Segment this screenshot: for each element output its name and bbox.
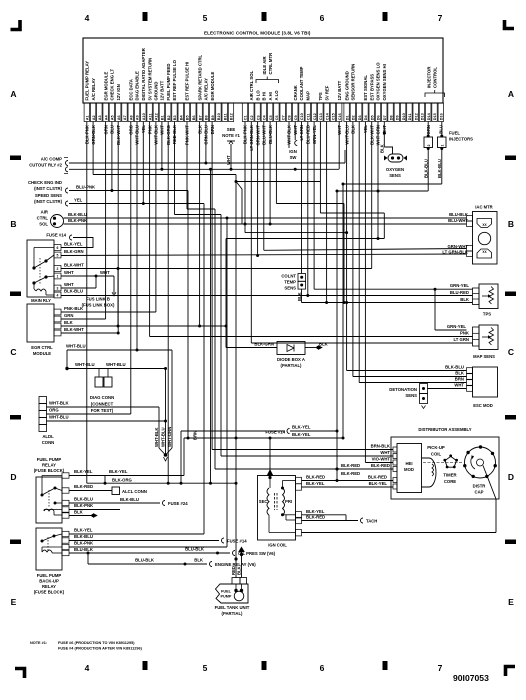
pick-up coil symbol — [422, 458, 437, 487]
svg-text:BLU-PNK: BLU-PNK — [76, 185, 96, 190]
svg-text:A6: A6 — [117, 115, 121, 120]
svg-text:BLK-BLU: BLK-BLU — [120, 497, 139, 502]
ECM pin C15 — [330, 103, 335, 122]
main rly internals — [32, 266, 35, 269]
wire drop from pin A11 — [149, 122, 151, 337]
svg-text:FUS LINK B: FUS LINK B — [86, 297, 110, 302]
fuel pump relay box — [36, 477, 62, 523]
ECM pin B10 — [216, 103, 221, 122]
ECM pin C13 — [318, 103, 323, 122]
ECM pin C10 — [299, 103, 304, 122]
distributor cap symbol — [465, 447, 496, 478]
wire WHT-BLK riser — [158, 407, 160, 448]
wire drop from pin A5 — [111, 122, 113, 191]
svg-text:CONTROL: CONTROL — [433, 67, 438, 88]
junction riser x343 top — [342, 183, 345, 186]
junction WHT-BLU riser — [164, 420, 167, 423]
svg-text:BLK: BLK — [379, 143, 384, 153]
junction riser x210 — [209, 168, 212, 171]
grid dash right — [505, 415, 516, 420]
svg-text:ORG: ORG — [49, 408, 59, 413]
wire riser x204 — [203, 204, 205, 535]
wire jog to blk-yel row — [104, 476, 106, 484]
svg-text:D8: D8 — [389, 115, 393, 120]
TPS resistor zigzag — [489, 287, 494, 305]
wire drop from pin C16 — [338, 122, 340, 170]
junction C9 row — [294, 168, 297, 171]
wire WHT pin1 — [61, 275, 114, 277]
svg-text:COIL: COIL — [431, 452, 442, 457]
svg-text:B11: B11 — [223, 113, 227, 120]
svg-text:WHT: WHT — [64, 282, 74, 287]
svg-text:BLK-YEL: BLK-YEL — [109, 469, 128, 474]
rotor arrow inside cap — [471, 457, 475, 469]
corner mark bottom-right — [506, 667, 516, 677]
svg-text:A2: A2 — [92, 115, 96, 120]
svg-text:A9: A9 — [136, 115, 140, 120]
check eng connector — [66, 188, 69, 193]
svg-text:WHT: WHT — [64, 270, 74, 275]
svg-text:D2: D2 — [352, 115, 356, 120]
svg-text:EGR MODULE: EGR MODULE — [103, 72, 108, 101]
wire drop from pin C6 — [275, 122, 277, 204]
ECM box outline — [83, 38, 443, 103]
wire BLK-BLU backup — [69, 540, 219, 542]
svg-text:BLK-YEL: BLK-YEL — [292, 425, 311, 430]
main rly pin 6 — [54, 245, 61, 251]
svg-text:D16: D16 — [440, 113, 444, 120]
ECM pin B8 — [203, 103, 208, 122]
svg-text:B5: B5 — [186, 115, 190, 120]
svg-text:BLK-RED: BLK-RED — [371, 463, 390, 468]
svg-text:SPEED SENS: SPEED SENS — [35, 193, 62, 198]
speed sens connector — [66, 201, 69, 206]
junction jog — [104, 482, 107, 485]
junction A10 — [142, 202, 145, 205]
svg-text:(INST CLSTR): (INST CLSTR) — [34, 199, 62, 204]
wire GRN to A4 — [61, 318, 106, 320]
wire drop from pin D14 — [427, 122, 429, 137]
ECM pin B7 — [197, 103, 202, 122]
svg-text:FUSE #4 (PRODUCTION AFTER VIN: FUSE #4 (PRODUCTION AFTER VIN K8911296) — [58, 647, 143, 651]
wire coil to distr cap — [302, 532, 497, 534]
svg-text:AIR: AIR — [41, 210, 48, 215]
wire drop from pin D3 — [358, 122, 360, 383]
wire BLK row TPS — [302, 302, 473, 304]
svg-text:FUSE #14: FUSE #14 — [46, 233, 66, 238]
svg-text:RELAY: RELAY — [42, 584, 56, 589]
wire BLK-WHT to A6 — [61, 332, 118, 334]
svg-text:TPS: TPS — [483, 312, 491, 317]
junction pri top — [281, 487, 284, 490]
ECM pin C8 — [286, 103, 291, 122]
fus link arrow — [112, 292, 116, 296]
junction x181 blk-org — [180, 482, 183, 485]
wire drop from pin A9 — [136, 122, 138, 351]
svg-text:5: 5 — [203, 663, 208, 673]
svg-text:A10: A10 — [142, 113, 146, 120]
svg-text:MAIN RLY: MAIN RLY — [31, 298, 51, 303]
wire drop from pin A8 — [130, 122, 132, 415]
svg-text:BLU-WHT: BLU-WHT — [448, 218, 468, 223]
svg-text:FUEL PUMP FEED: FUEL PUMP FEED — [166, 64, 171, 101]
ECM pin D2 — [350, 103, 355, 122]
svg-text:B HI: B HI — [262, 92, 267, 101]
ECM pin D16 — [438, 103, 443, 122]
svg-text:D1: D1 — [345, 115, 349, 120]
junction D6 injector row — [377, 190, 380, 193]
ign coil bottom terminal — [296, 530, 302, 536]
svg-text:1: 1 — [57, 274, 59, 278]
svg-text:COLNT: COLNT — [281, 274, 296, 279]
svg-text:B: B — [508, 219, 514, 229]
svg-text:BLK-BLU: BLK-BLU — [68, 212, 87, 217]
svg-text:4: 4 — [85, 663, 90, 673]
svg-text:12V BATT: 12V BATT — [160, 80, 165, 100]
svg-text:PNK: PNK — [460, 331, 470, 336]
svg-text:OXYGEN SENS LO: OXYGEN SENS LO — [376, 62, 381, 101]
svg-text:BLK-GRN: BLK-GRN — [64, 249, 84, 254]
ALCL conn box — [112, 487, 120, 495]
fp relay pin — [62, 488, 69, 493]
svg-text:LT GRN-BLK: LT GRN-BLK — [442, 250, 469, 255]
oxygen sensor connector — [388, 154, 403, 162]
svg-text:WHT: WHT — [100, 270, 110, 275]
main rly pin 3 — [54, 285, 61, 291]
svg-text:B3: B3 — [173, 115, 177, 120]
ECM pin A9 — [134, 103, 139, 122]
svg-text:AIR CTRL SOL: AIR CTRL SOL — [249, 70, 254, 100]
main relay box — [27, 240, 54, 297]
svg-text:6: 6 — [320, 663, 325, 673]
ECM pin C16 — [337, 103, 342, 122]
svg-text:4: 4 — [57, 293, 59, 297]
wire row 181 to C13 — [236, 181, 320, 183]
wire drop from pin C9 — [294, 122, 296, 141]
ECM pin D9 — [394, 103, 399, 122]
svg-text:BLK-RED: BLK-RED — [341, 471, 360, 476]
svg-text:OXYGEN: OXYGEN — [386, 167, 404, 172]
junction D1 blk row — [345, 301, 348, 304]
svg-text:D: D — [508, 472, 514, 482]
svg-text:BLK-RED: BLK-RED — [341, 463, 360, 468]
junction x337 coil — [336, 479, 339, 482]
grid dash left — [10, 540, 21, 545]
junction x337 — [336, 430, 339, 433]
fp backup pin — [62, 550, 69, 555]
svg-text:IGN: IGN — [289, 149, 297, 154]
bracket IDLE AIR CTRL MTR over C3-C6 — [256, 80, 279, 84]
wire cap to coil riser — [483, 466, 496, 500]
svg-text:C11: C11 — [307, 113, 311, 120]
svg-text:GRN-YEL: GRN-YEL — [447, 324, 467, 329]
corner mark top-left — [11, 20, 21, 30]
svg-text:BLK-YEL: BLK-YEL — [306, 481, 325, 486]
A/C comp cutout rly #2 connector — [66, 161, 69, 166]
fp backup pin — [62, 544, 69, 549]
junction WHT trio — [164, 453, 168, 457]
svg-text:B LO: B LO — [255, 90, 260, 101]
wire GRN-YEL branch vert — [434, 289, 436, 330]
junction coil feed — [269, 437, 272, 440]
wire riser x227 — [226, 218, 228, 547]
wire BLK from coolant sens — [301, 289, 303, 302]
svg-text:B1: B1 — [161, 115, 165, 120]
ECM pin C4 — [261, 103, 266, 122]
fp relay pin — [62, 473, 69, 478]
svg-text:6: 6 — [57, 246, 59, 250]
ECM pin D13 — [419, 103, 424, 122]
wire row y238 — [226, 238, 384, 240]
ECM pin C11 — [305, 103, 310, 122]
fuel pump terminal 2 — [240, 578, 247, 584]
svg-text:5: 5 — [203, 13, 208, 23]
ign sw connector — [295, 141, 298, 146]
wire engine relay row — [88, 563, 207, 565]
svg-text:GRN-WHT: GRN-WHT — [447, 244, 468, 249]
svg-text:ALCL CONN: ALCL CONN — [122, 489, 147, 494]
svg-text:OIL PRES SW (V6): OIL PRES SW (V6) — [238, 551, 276, 556]
svg-text:TIMER: TIMER — [443, 473, 456, 478]
svg-text:SEC: SEC — [259, 499, 268, 504]
fp relay pin — [62, 513, 69, 518]
svg-text:BLK-WHT: BLK-WHT — [64, 263, 84, 268]
svg-text:C1: C1 — [244, 115, 248, 120]
ign coil terminal — [296, 512, 302, 518]
svg-text:BLK-RED: BLK-RED — [306, 475, 325, 480]
ALDL conn pin boxes — [39, 397, 47, 404]
svg-text:COOLANT TEMP: COOLANT TEMP — [299, 66, 304, 100]
svg-text:C5: C5 — [269, 115, 273, 120]
wire 12V row to C16 — [69, 168, 339, 170]
ECM pin C6 — [274, 103, 279, 122]
fuel tank unit outline — [216, 584, 249, 603]
junction B7 — [198, 325, 201, 328]
svg-text:B10: B10 — [217, 113, 221, 120]
wire drop from pin B1 — [161, 122, 163, 170]
junction x343 — [342, 437, 345, 440]
wire drop from pin B9 — [211, 122, 213, 450]
ECM pin A10 — [141, 103, 146, 122]
ign coil box — [258, 476, 296, 541]
svg-text:FUEL PUMP: FUEL PUMP — [37, 457, 62, 462]
bracket INJECTOR CONTROL over D14-D16 — [425, 93, 445, 97]
svg-text:CTRL MTR: CTRL MTR — [268, 53, 273, 75]
svg-text:ECC DATA: ECC DATA — [128, 79, 133, 100]
wire BLK fp — [69, 515, 93, 517]
ign coil windings — [267, 488, 269, 515]
svg-text:BLK-YEL: BLK-YEL — [369, 481, 388, 486]
svg-text:IAC MTR: IAC MTR — [475, 205, 492, 210]
svg-text:C2: C2 — [250, 115, 254, 120]
junction riser x210 — [209, 482, 212, 485]
junction riser x188 — [187, 437, 190, 440]
wire WHT row ESC — [428, 388, 467, 390]
svg-text:BLK-PNK: BLK-PNK — [74, 503, 94, 508]
wire D7 jog to oxygen pin — [384, 147, 392, 154]
svg-text:WHT: WHT — [380, 450, 390, 455]
wire drop from pin B5 — [186, 122, 188, 210]
svg-text:B7: B7 — [198, 115, 202, 120]
svg-text:5V REF: 5V REF — [324, 85, 329, 100]
ECM pin A8 — [128, 103, 133, 122]
svg-text:(FUSE BLOCK): (FUSE BLOCK) — [34, 590, 65, 595]
svg-text:BLK-GRN: BLK-GRN — [254, 342, 274, 347]
main rly pin 2 — [54, 266, 61, 272]
fuel injector 1 — [438, 137, 447, 148]
svg-text:ALDL: ALDL — [42, 434, 54, 439]
svg-text:BLK-BLU: BLK-BLU — [74, 534, 93, 539]
wire drop from pin D2 — [352, 122, 354, 377]
junction B8 — [204, 162, 207, 165]
svg-text:BLK-BLU: BLK-BLU — [445, 365, 464, 370]
junction pri bottom — [281, 513, 284, 516]
junction C11 — [306, 294, 309, 297]
wire C13 row to x384 — [320, 212, 384, 214]
svg-text:FUEL PUMP: FUEL PUMP — [37, 573, 62, 578]
svg-text:FOR TEST): FOR TEST) — [91, 408, 114, 413]
wire BLK-YEL fp relay — [69, 475, 184, 477]
svg-text:A5: A5 — [111, 115, 115, 120]
wire drop from pin C5 — [269, 122, 271, 225]
wire drop from pin C8 — [288, 122, 290, 149]
wire drop from pin A10 — [142, 122, 144, 204]
svg-text:NOTE #1:: NOTE #1: — [30, 641, 47, 645]
wire LT GRN row MAP — [251, 342, 472, 344]
IAC nub 4 — [467, 251, 473, 257]
wire WHT row HEI — [221, 455, 393, 457]
svg-text:WHT-BLU: WHT-BLU — [161, 427, 166, 447]
svg-text:YEL: YEL — [74, 198, 83, 203]
air ctrl sol symbol — [51, 215, 64, 228]
junction x118 lower — [117, 325, 120, 328]
ECM pin A12 — [153, 103, 158, 122]
svg-text:BLU: BLU — [439, 125, 444, 134]
svg-text:C9: C9 — [294, 115, 298, 120]
svg-text:TPS: TPS — [318, 92, 323, 100]
svg-text:5V SYSTEM RETURN: 5V SYSTEM RETURN — [147, 58, 152, 101]
svg-text:D14: D14 — [427, 112, 431, 120]
svg-text:BLK-RED: BLK-RED — [306, 515, 325, 520]
junction B1 — [160, 168, 163, 171]
wire BLK-WHT to D5 — [61, 268, 372, 270]
EGR ctrl module box — [27, 304, 54, 342]
grid dash right — [505, 156, 516, 161]
grid dash left — [10, 156, 21, 161]
coolant sens conn 1 — [298, 274, 306, 282]
dashed line through timer core — [423, 462, 462, 464]
junction x226 egr blk row — [225, 325, 228, 328]
svg-text:FUSE #14: FUSE #14 — [227, 539, 247, 544]
wire drop from pin B7 — [199, 122, 201, 327]
svg-text:EST BYPASS: EST BYPASS — [369, 74, 374, 101]
ECM pin D14 — [426, 103, 431, 122]
svg-text:SENS: SENS — [389, 173, 401, 178]
wire drop from pin A12 — [155, 122, 157, 313]
TPS box — [479, 284, 498, 309]
wire WHT to fus link — [113, 276, 115, 294]
main rly pin 1 — [54, 273, 61, 279]
wire BLK-RED coil row — [302, 480, 394, 482]
svg-text:(PARTIAL): (PARTIAL) — [222, 611, 244, 616]
ECM pin D6 — [375, 103, 380, 122]
wire riser x215 PNK-WHT — [214, 209, 216, 469]
junction note1 feed — [230, 168, 233, 171]
svg-text:ENGINE RELAY (V6): ENGINE RELAY (V6) — [215, 562, 256, 567]
svg-text:GRN-YEL: GRN-YEL — [450, 283, 470, 288]
fp backup pin — [62, 538, 69, 543]
IAC nub 3 — [467, 246, 473, 252]
svg-text:CAP: CAP — [475, 490, 484, 495]
svg-text:FUSE #14: FUSE #14 — [265, 429, 285, 434]
svg-text:WHT-BLU: WHT-BLU — [106, 362, 126, 367]
ECM pin B9 — [209, 103, 214, 122]
wire BLK to fuel pump — [241, 552, 243, 578]
wire B3 jog to riser x221 — [175, 214, 222, 216]
wire drop from pin A6 — [117, 122, 119, 334]
wire PNK row MAP — [150, 336, 473, 338]
junction blk-red row — [336, 468, 339, 471]
svg-text:MODULE: MODULE — [33, 351, 51, 356]
svg-text:BLK: BLK — [194, 558, 204, 563]
svg-text:90I07053: 90I07053 — [453, 673, 489, 683]
svg-text:PICK-UP: PICK-UP — [427, 445, 445, 450]
ECM pin D11 — [407, 103, 412, 122]
svg-text:BLK-YEL: BLK-YEL — [74, 528, 93, 533]
svg-text:IGN COIL: IGN COIL — [268, 543, 287, 548]
svg-text:LT GRN: LT GRN — [453, 337, 469, 342]
svg-text:EGR MODULE: EGR MODULE — [210, 72, 215, 101]
junction x337 to HEI — [336, 468, 339, 471]
svg-text:TEMP: TEMP — [284, 280, 296, 285]
HEI pin — [393, 467, 397, 472]
svg-text:5: 5 — [57, 253, 59, 257]
svg-text:BLK-PNK: BLK-PNK — [68, 218, 88, 223]
svg-text:C6: C6 — [275, 115, 279, 120]
svg-text:DIGITAL RATIO ADAPTER: DIGITAL RATIO ADAPTER — [141, 48, 146, 100]
grid dash right — [505, 540, 516, 545]
wire drop from pin D7 — [383, 122, 385, 148]
junction x236 row181 — [235, 180, 238, 183]
ECM pin A4 — [103, 103, 108, 122]
svg-text:B9: B9 — [211, 115, 215, 120]
ECM pin C5 — [267, 103, 272, 122]
svg-text:BLU-BLK: BLU-BLK — [185, 547, 205, 552]
wire BLK-YEL fuse row 2 — [184, 437, 343, 439]
svg-text:7: 7 — [438, 13, 443, 23]
svg-text:12V BATT: 12V BATT — [337, 80, 342, 100]
wire drop from pin B2 — [167, 122, 169, 484]
junction C5 — [269, 223, 272, 226]
EGR module pin — [54, 316, 61, 322]
wire BLK-RED to tach — [302, 520, 359, 522]
junction eng relay branch — [87, 552, 90, 555]
svg-text:BLK-YEL: BLK-YEL — [64, 242, 83, 247]
ECM pin C2 — [249, 103, 254, 122]
EGR module pin — [54, 330, 61, 336]
svg-text:BRN: BRN — [455, 377, 464, 382]
wire long vertical x236 to fuel pump — [235, 175, 237, 579]
svg-text:D10: D10 — [402, 113, 406, 120]
WHT trio converge — [159, 448, 166, 455]
svg-text:CRANK: CRANK — [293, 84, 298, 100]
svg-text:A/C RELAY: A/C RELAY — [204, 78, 209, 101]
svg-text:C14: C14 — [325, 112, 329, 120]
svg-text:A: A — [508, 89, 514, 99]
svg-text:SENS: SENS — [284, 286, 296, 291]
wire fuse14 to main rly pin6 — [61, 238, 93, 248]
wire BLK-YEL fuse row 1 left — [181, 430, 285, 432]
